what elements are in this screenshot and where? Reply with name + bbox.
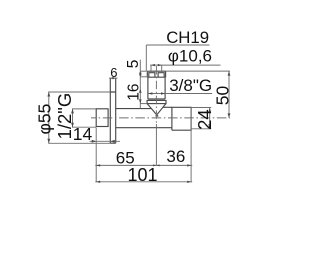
phi10,6 ext stubs bbox=[151, 65, 162, 70]
dim 65/36 line bbox=[95, 164, 192, 166]
arrows 101 bbox=[96, 181, 100, 183]
valve body left section bbox=[116, 109, 172, 128]
arrows 50 bbox=[228, 71, 231, 76]
vertical axis extension to 65/36 dim bbox=[155, 124, 157, 166]
arrowheads bbox=[47, 64, 230, 183]
cone junction left diagonal bbox=[147, 104, 158, 117]
escutcheon flange (side view, 6 thick, dia 55) bbox=[110, 78, 115, 143]
CH19 leader bbox=[146, 45, 209, 71]
arrows phi10,6 bbox=[151, 64, 155, 66]
arrows 1/2G bbox=[71, 109, 74, 114]
dim phi55 line bbox=[48, 92, 110, 143]
svg-text:16: 16 bbox=[126, 83, 143, 100]
arrows 65 bbox=[96, 164, 100, 166]
collar bbox=[147, 100, 166, 103]
dim 14 line bbox=[90, 140, 121, 142]
svg-text:5: 5 bbox=[125, 60, 142, 69]
left extension line below nipple bbox=[95, 128, 97, 183]
arrows 3/8G bbox=[148, 92, 152, 95]
vertical axis centerline bbox=[155, 66, 157, 124]
arrows 16 bbox=[139, 89, 142, 93]
dim 1/2G line bbox=[72, 109, 96, 127]
3/8G leader/dim bbox=[148, 93, 212, 95]
cone junction right diagonal bbox=[156, 104, 166, 117]
hex nut CH19 top bbox=[147, 71, 165, 77]
svg-text:14: 14 bbox=[73, 124, 93, 144]
svg-text:24: 24 bbox=[194, 109, 215, 130]
nut facet window left bbox=[149, 73, 155, 78]
phi10,6 leader/dim bbox=[150, 64, 220, 66]
dim 6 extension+line bbox=[109, 77, 118, 79]
dimension lines bbox=[48, 45, 230, 182]
ext stub collar bottom bbox=[140, 103, 147, 105]
3/8 threaded cylinder bbox=[148, 77, 165, 99]
arrows 14 bbox=[92, 140, 97, 143]
centerlines bbox=[91, 66, 230, 166]
dim 50 line bbox=[228, 71, 230, 118]
horizontal axis centerline bbox=[91, 117, 230, 119]
svg-text:CH19: CH19 bbox=[166, 28, 209, 47]
dim 101 line bbox=[95, 181, 192, 183]
svg-text:φ55: φ55 bbox=[34, 104, 54, 135]
svg-text:φ10,6: φ10,6 bbox=[168, 46, 212, 65]
shelf to right outlet bbox=[163, 106, 172, 108]
arrows 5 bbox=[139, 71, 142, 75]
right extension line below outlet bbox=[190, 107, 192, 182]
svg-text:6: 6 bbox=[110, 65, 117, 80]
ext stub nut top bbox=[140, 70, 146, 72]
right outlet box (24 high) bbox=[172, 107, 191, 130]
svg-text:3/8"G: 3/8"G bbox=[169, 76, 212, 95]
arrows phi55 bbox=[47, 92, 50, 97]
dim 5/16 vertical line bbox=[139, 60, 141, 109]
1/2"G threaded nipple bbox=[96, 109, 108, 127]
dim 24 extensions bbox=[192, 108, 212, 129]
nut facet window right bbox=[158, 73, 164, 78]
arrows 36 bbox=[156, 164, 159, 166]
svg-text:101: 101 bbox=[128, 165, 158, 185]
ext stub nut bottom bbox=[140, 76, 148, 78]
arrows dim 6 bbox=[110, 77, 113, 79]
svg-text:50: 50 bbox=[212, 85, 232, 105]
svg-text:36: 36 bbox=[166, 147, 185, 166]
50 top extension bbox=[166, 70, 230, 72]
dim 24 line bbox=[209, 108, 211, 129]
arrows 24 bbox=[208, 108, 211, 113]
